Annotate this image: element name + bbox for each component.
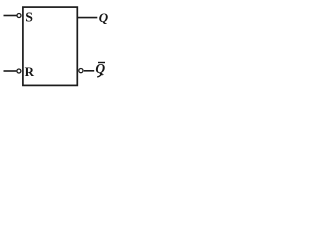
wire: Q output lead xyxy=(78,17,97,19)
inversion bubble on Q-bar output xyxy=(79,69,83,73)
inversion bubble on S input xyxy=(17,14,21,18)
svg-text:R: R xyxy=(25,64,35,79)
tail swash of Q-bar xyxy=(98,74,102,77)
wire: Q-bar output lead xyxy=(84,70,94,72)
inversion bubble on R input xyxy=(17,69,21,73)
wire: R input lead xyxy=(4,70,17,72)
svg-text:S: S xyxy=(25,10,33,25)
svg-text:Q: Q xyxy=(99,10,109,25)
latch body U1 (SR latch rectangle) xyxy=(23,7,77,85)
svg-text:Q: Q xyxy=(95,61,105,76)
overbar of Q-bar xyxy=(98,62,105,64)
wire: S input lead xyxy=(4,15,17,17)
